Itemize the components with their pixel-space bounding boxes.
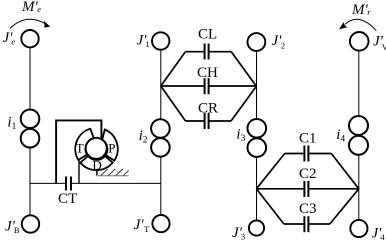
svg-text:CR: CR xyxy=(198,101,218,117)
svg-text:T: T xyxy=(76,141,84,156)
ground xyxy=(97,169,129,176)
gear i1 xyxy=(21,110,40,129)
svg-text:CL: CL xyxy=(198,27,217,43)
wire bottom-left diagonal xyxy=(256,189,284,224)
gear i3 xyxy=(247,119,266,138)
gear i4 xyxy=(349,116,368,135)
wire main horizontal xyxy=(30,182,161,184)
inertia J'B xyxy=(22,215,39,232)
pump P segment xyxy=(102,130,118,161)
inertia J'4 xyxy=(350,220,367,237)
wire bottom edge left xyxy=(284,223,304,225)
wire pump connection box xyxy=(56,120,101,183)
wire i3 to J'3 through hexagon vertex xyxy=(256,158,258,221)
wire bottom edge right xyxy=(209,120,231,122)
svg-text:C2: C2 xyxy=(299,166,317,182)
wire top-right diagonal xyxy=(331,154,359,189)
svg-text:C3: C3 xyxy=(299,201,317,217)
wire bottom edge left xyxy=(186,120,204,122)
wire top edge right xyxy=(209,51,231,53)
wire chain D vertical xyxy=(358,51,360,220)
wire top-left diagonal xyxy=(161,52,186,86)
inertia J'3 xyxy=(249,220,264,235)
wire top-right diagonal xyxy=(231,52,256,87)
wire chain A vertical (engine) xyxy=(29,48,31,215)
wire top edge right xyxy=(309,153,331,155)
wire bottom-right diagonal xyxy=(330,189,359,224)
inertia J'1 xyxy=(152,32,169,49)
inertia J'2 xyxy=(248,33,266,51)
reactor D segment xyxy=(80,156,112,170)
inertia J'T xyxy=(152,215,169,232)
wire chain C vertical xyxy=(256,52,258,221)
capacitor CR xyxy=(205,113,209,129)
wire node A to CT xyxy=(30,182,65,184)
wire J'V to i4 xyxy=(358,51,360,116)
capacitor C3 xyxy=(304,216,308,232)
wire mid edge right xyxy=(209,85,256,87)
wire i1 to J'B through node xyxy=(29,148,31,215)
wire CT to node B xyxy=(72,182,161,184)
svg-text:CT: CT xyxy=(58,191,77,207)
torque arrow M'r xyxy=(345,19,376,30)
torque converter U (T,P,D) xyxy=(75,129,117,170)
wire bottom-right diagonal xyxy=(231,86,256,121)
wire top edge left xyxy=(285,153,304,155)
svg-text:C1: C1 xyxy=(299,131,317,147)
wire turbine connection xyxy=(78,160,80,184)
wire bottom-left diagonal xyxy=(161,86,186,121)
wire top edge left xyxy=(185,51,203,53)
inertia J'V xyxy=(350,32,369,51)
wire J'e to i1 xyxy=(29,48,31,109)
capacitor CL xyxy=(205,44,209,60)
wire i4 to J'4 through hexagon vertex xyxy=(358,156,360,220)
svg-text:P: P xyxy=(108,141,115,156)
wire chain B vertical (turbine output) xyxy=(160,50,162,215)
wire J'1 to i2 through hexagon vertex xyxy=(160,50,162,119)
hexagon 2 edges xyxy=(256,154,358,225)
wire mid edge right xyxy=(309,188,359,190)
turbine T segment xyxy=(75,129,94,160)
wire mid edge left xyxy=(256,188,303,190)
capacitor CT xyxy=(66,177,71,191)
wire mid edge left xyxy=(161,85,204,87)
capacitor C2 xyxy=(304,181,308,197)
wire i2 to J'T through node xyxy=(160,157,162,215)
capacitor C1 xyxy=(304,146,308,162)
wire top-left diagonal xyxy=(256,154,284,189)
hexagon 1 edges (gearbox clutches) xyxy=(161,52,257,121)
torque arrow M'e xyxy=(10,19,46,28)
wire bottom edge right xyxy=(309,223,330,225)
svg-text:CH: CH xyxy=(197,65,218,81)
capacitor CH xyxy=(205,78,209,94)
inertia J'e xyxy=(21,30,38,47)
inner hub circle xyxy=(86,138,107,159)
gear i2 xyxy=(151,119,170,138)
wire J'2 to i3 through hexagon vertex xyxy=(256,52,258,119)
